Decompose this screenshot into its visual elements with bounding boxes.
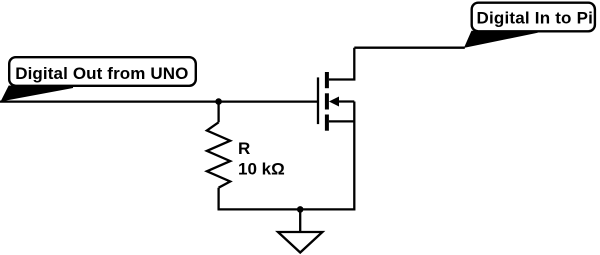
transistor Q1 channel bar (body, middle) [325,93,329,109]
transistor Q1 source tap wire [329,120,354,122]
transistor Q1 body arrow line [338,100,355,102]
transistor Q1 body arrowhead [329,97,339,107]
annotation box: Digital Out from UNO [9,57,196,86]
svg-text:Digital In to Pi: Digital In to Pi [477,9,594,28]
node B junction dot (ground tap) [297,206,304,213]
wire: resistor top lead [217,102,219,123]
transistor Q1 channel bar (source side) [325,115,329,131]
svg-text:10 kΩ: 10 kΩ [238,159,285,178]
transistor Q1 drain tap wire [329,48,354,80]
annotation tail (Digital Out from UNO) [2,86,74,101]
wire: drain up to Pi input [354,47,465,49]
transistor Q1 channel bar (drain side) [325,72,329,88]
annotation box: Digital In to Pi [472,3,595,32]
wire: bottom ground rail [218,208,355,210]
annotation tail (Digital In to Pi) [465,31,538,47]
wire: resistor bottom lead [217,188,219,210]
wire: main horizontal net from UNO output to gate [0,100,317,102]
wire: source/body down to ground rail [353,102,355,211]
resistor R 10 kOhm zigzag body [207,122,230,187]
transistor Q1 NMOS gate bar [317,77,319,124]
node A junction dot (gate/resistor tap) [215,98,222,105]
ground symbol [278,209,322,252]
svg-text:R: R [238,139,250,158]
svg-text:Digital Out from UNO: Digital Out from UNO [15,64,188,83]
